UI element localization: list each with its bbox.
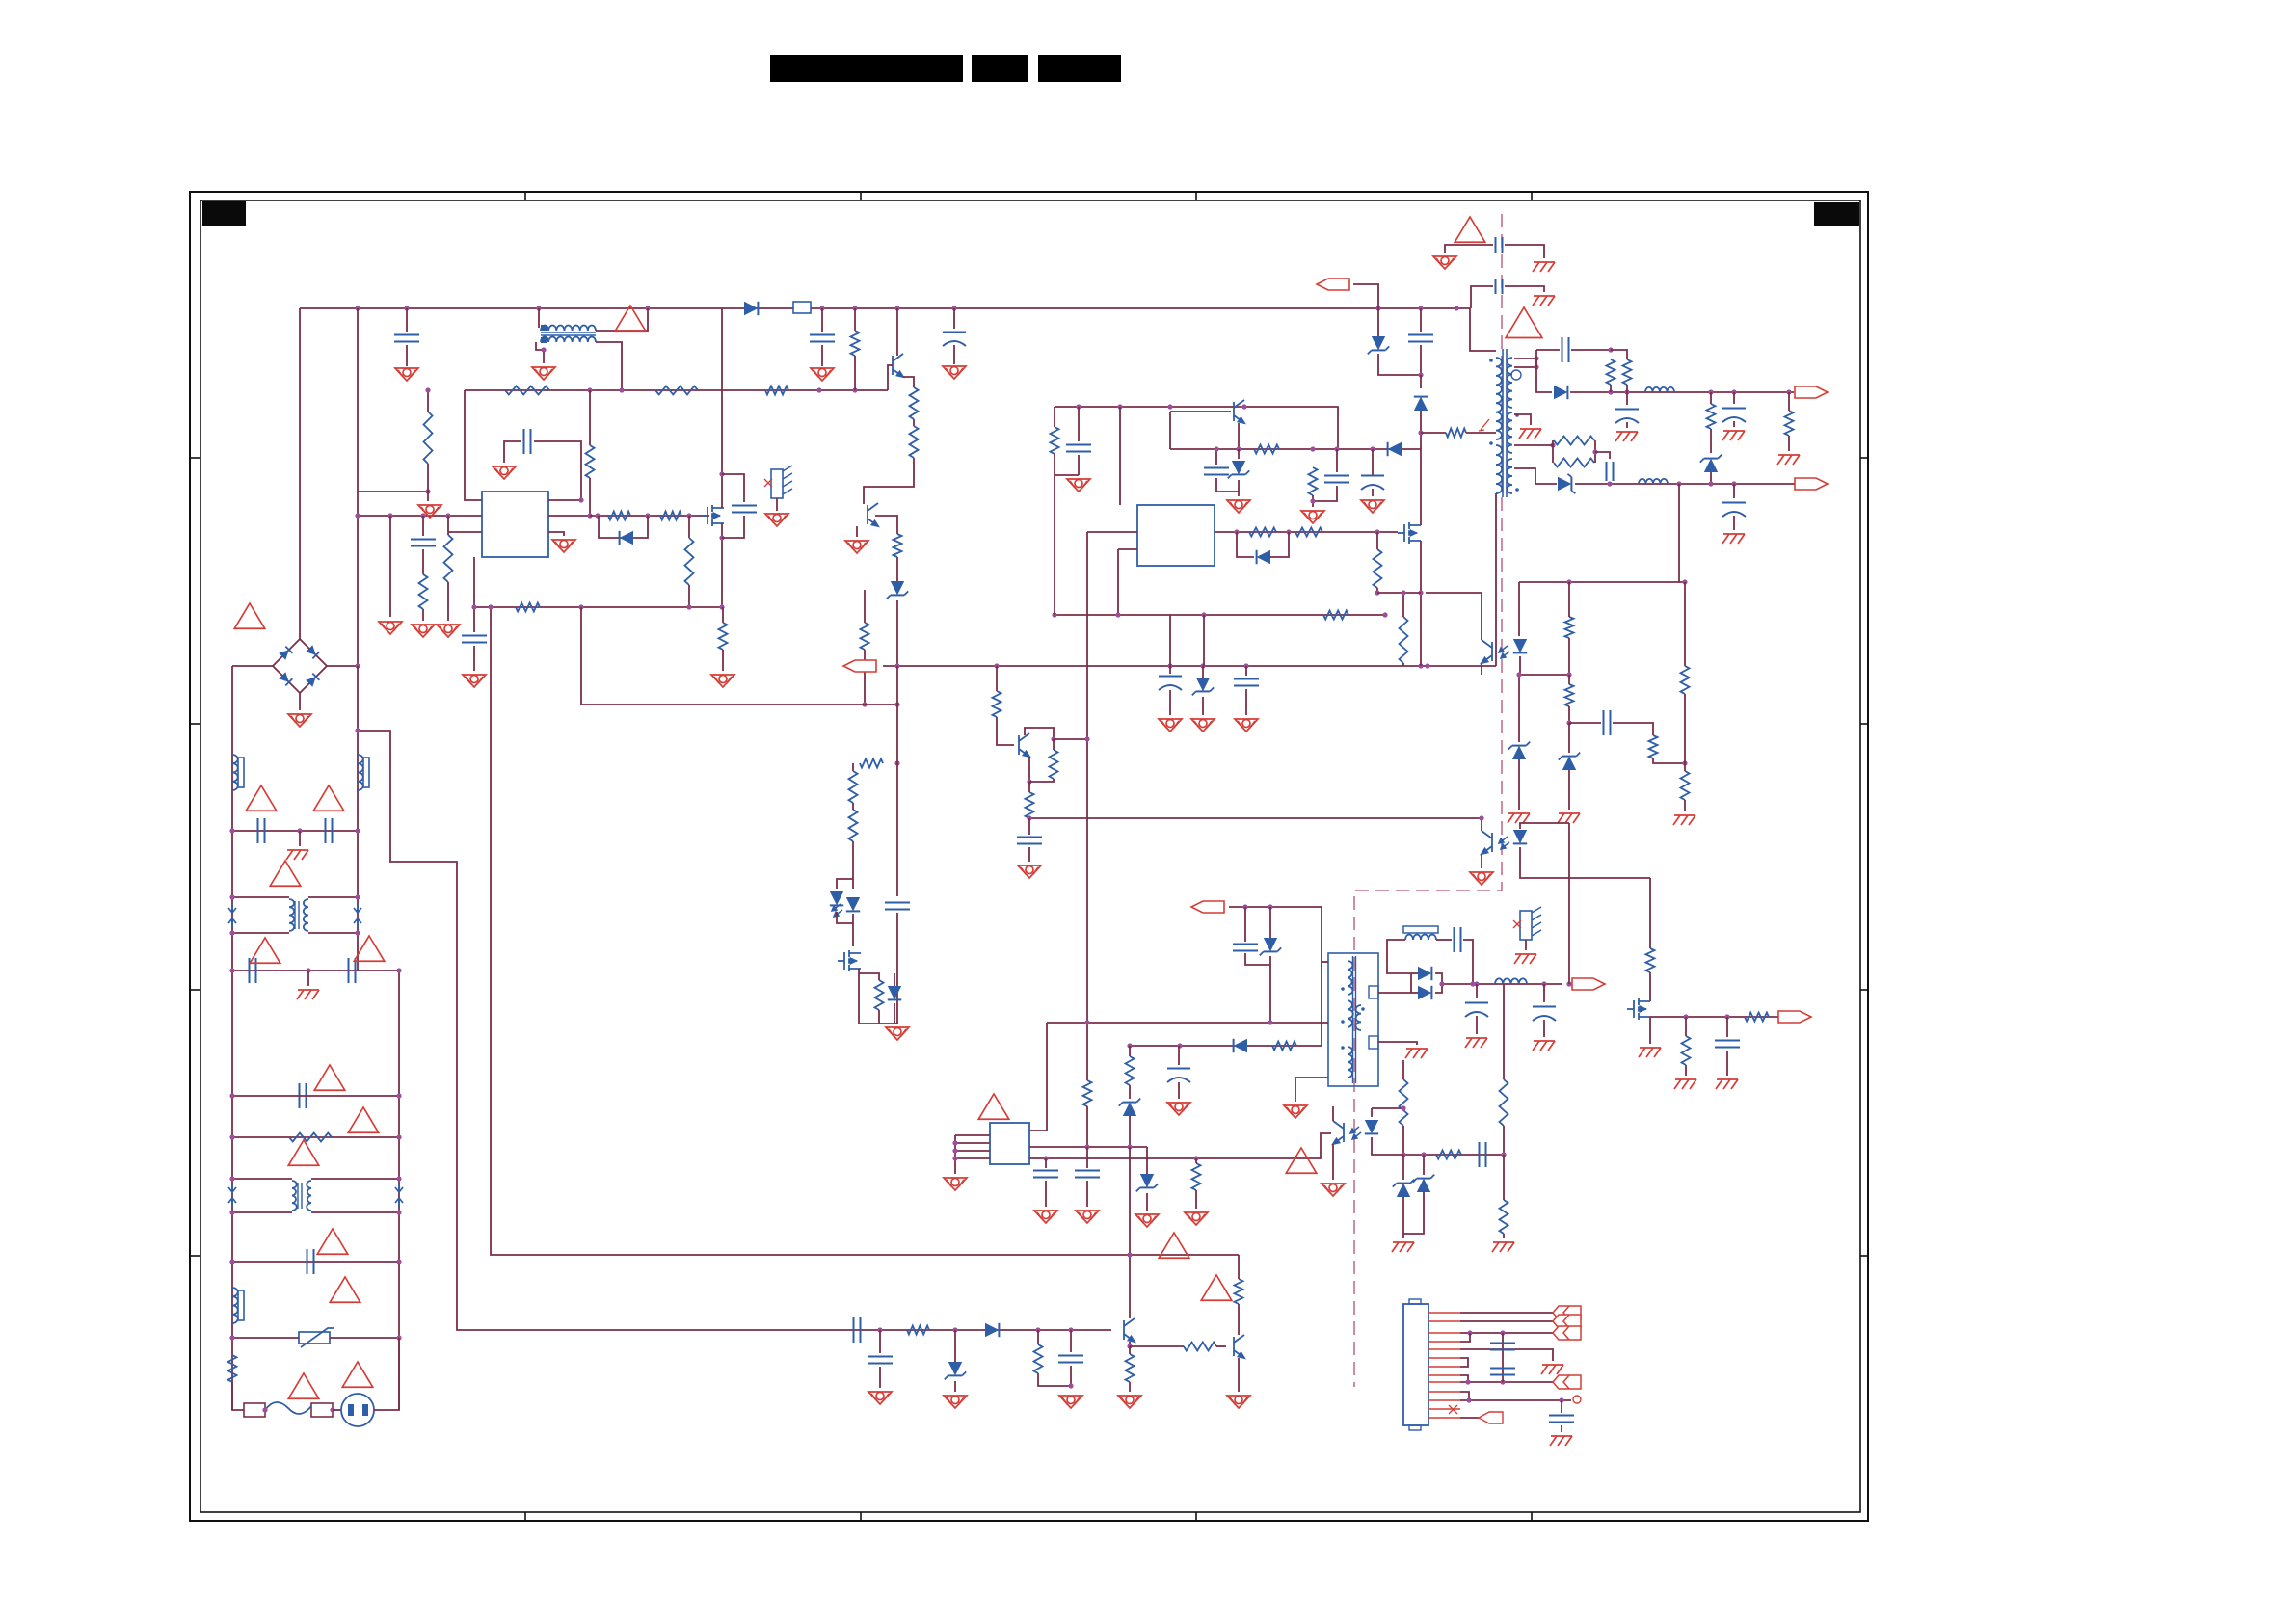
wire pcap4 stub bbox=[1476, 984, 1478, 998]
wire c38 bot bbox=[1178, 1082, 1180, 1099]
wire R24 down bbox=[852, 841, 854, 889]
connector J8 bbox=[1191, 901, 1224, 913]
wire net B routing bbox=[491, 607, 1239, 1255]
wire bridge bottom gnd bbox=[299, 693, 301, 710]
ground R18 bbox=[711, 675, 734, 687]
wire row 1180 bbox=[232, 1136, 399, 1138]
wire Q2 base bbox=[1170, 411, 1231, 412]
surge arrester SG3 bbox=[228, 1184, 236, 1207]
wire zd7 drop bbox=[1269, 907, 1271, 938]
resistor R56 bbox=[993, 691, 1001, 717]
junction bbox=[1127, 1252, 1132, 1257]
wire opto1 tr e bbox=[1481, 663, 1482, 675]
wire pcap2 gnd bbox=[1733, 421, 1735, 427]
surge arrester SG4 bbox=[395, 1184, 403, 1207]
transformer T2 pin tab 2 bbox=[1369, 1036, 1378, 1049]
resistor R17 bbox=[516, 603, 540, 612]
wire q3 emitter bbox=[1129, 1342, 1131, 1346]
wire opto1 tr c bbox=[1426, 593, 1482, 640]
wire choke row bot2 bbox=[308, 932, 358, 934]
resistor R21 bbox=[228, 1355, 237, 1382]
junction bbox=[1559, 1397, 1563, 1402]
chassis ground R64 bbox=[1674, 1079, 1696, 1089]
junction bbox=[1418, 306, 1423, 310]
warning triangle W5 bbox=[313, 785, 344, 811]
transformer T2 box bbox=[1328, 953, 1378, 1086]
zener diode ZD12 bbox=[1196, 678, 1210, 691]
junction bbox=[1516, 672, 1521, 677]
resistor R43 bbox=[1681, 771, 1690, 800]
border tick right 1 bbox=[1860, 457, 1868, 459]
wire CN1 pin13 net bbox=[1460, 1417, 1479, 1419]
wire c28 bot bbox=[1070, 1366, 1072, 1386]
output connector CN1 bbox=[1403, 1299, 1428, 1430]
zener diode ZD10 bar bbox=[1413, 1175, 1434, 1183]
wire fb to standby bbox=[1569, 877, 1650, 879]
wire sec pin1 bbox=[1514, 358, 1536, 359]
transformer T1 pin mark bbox=[1479, 419, 1489, 431]
wire r43 bot bbox=[1684, 800, 1686, 811]
ground C32 bbox=[463, 675, 486, 687]
wire zd11 top bbox=[954, 1330, 956, 1362]
resistor R29 bbox=[1249, 528, 1276, 537]
wire zd3 top bbox=[1377, 308, 1379, 336]
wire gate row bbox=[590, 515, 709, 517]
junction bbox=[1201, 612, 1206, 617]
ground Q6 bbox=[845, 541, 868, 553]
polarized capacitor C12 bbox=[1361, 476, 1384, 491]
wire M3 down bbox=[859, 969, 897, 1024]
wire CN1 pin 2 stub bbox=[1428, 1320, 1460, 1322]
capacitor C20 bbox=[1233, 945, 1258, 951]
wire d8 out bbox=[1570, 391, 1794, 393]
wire rpair right bbox=[1594, 440, 1596, 463]
junction bbox=[894, 306, 899, 310]
chassis ground X-cap bbox=[297, 990, 319, 999]
zener diode ZD4 bbox=[1704, 459, 1718, 472]
wire ZD12 stub bbox=[1202, 666, 1204, 678]
zener diode ZD9 bbox=[1397, 1184, 1410, 1197]
wire CN1 pin 5 stub bbox=[1428, 1348, 1460, 1350]
resistor R25 bbox=[875, 980, 884, 1010]
wire U3 bottom row bbox=[1055, 614, 1385, 616]
junction bbox=[1683, 1014, 1688, 1019]
junction bbox=[595, 513, 600, 518]
inductor L8 bbox=[1495, 978, 1527, 984]
wire Y-cap row bbox=[232, 830, 358, 832]
wire R31 drop bbox=[1376, 532, 1378, 549]
wire U1 bottom pin bbox=[474, 557, 723, 607]
resistor R8 bbox=[851, 331, 860, 356]
zener diode D9 bbox=[1558, 477, 1571, 491]
junction bbox=[1035, 1327, 1040, 1332]
wire C3 gnd bbox=[821, 345, 823, 366]
junction bbox=[355, 306, 360, 310]
wire Q5 collector bbox=[1025, 728, 1054, 739]
wire d11 bot bbox=[1129, 1116, 1131, 1147]
PWM controller U1 bbox=[482, 492, 548, 557]
wire c38 top bbox=[1178, 1046, 1180, 1065]
ground U6 bbox=[1322, 1184, 1345, 1196]
wire pcap3 stub bbox=[1733, 484, 1735, 498]
ground U5 bbox=[944, 1178, 967, 1190]
wire R9-R10 bbox=[913, 419, 915, 426]
resistor R9 bbox=[910, 387, 919, 419]
junction bbox=[1375, 306, 1380, 310]
resistor R40 bbox=[1565, 617, 1574, 638]
wire row 466 bbox=[1170, 448, 1421, 450]
chassis ground ZD5 bbox=[1558, 813, 1580, 823]
junction bbox=[1051, 736, 1055, 741]
fuse F1 bbox=[244, 1402, 333, 1417]
warning triangle W2 bbox=[615, 306, 646, 331]
resistor R45 bbox=[1272, 1042, 1296, 1051]
junction bbox=[1731, 389, 1736, 394]
wire aux row B bbox=[1130, 1045, 1322, 1047]
junction bbox=[306, 968, 310, 972]
chassis ground Y-caps bbox=[286, 850, 308, 860]
capacitor C31 bbox=[1549, 1416, 1574, 1423]
wire r48 top bbox=[1503, 984, 1505, 1079]
junction bbox=[1127, 1144, 1132, 1149]
resistor R65 bbox=[1083, 1080, 1092, 1106]
wire d13 in bbox=[1411, 992, 1418, 994]
wire U3 out bbox=[1215, 531, 1398, 533]
wire c12 bot bbox=[1372, 489, 1374, 496]
wire R19 down bbox=[896, 557, 898, 581]
wire R8 top bbox=[854, 308, 856, 331]
transformer T1 secondary 1 bbox=[1508, 358, 1512, 408]
wire CN1 pin 6 stub bbox=[1428, 1357, 1460, 1359]
capacitor C27 bbox=[868, 1357, 893, 1364]
wire mains row bbox=[232, 1382, 244, 1410]
wire c37 gnd bbox=[1726, 1051, 1728, 1076]
resistor R27 bbox=[1254, 445, 1279, 454]
junction bbox=[355, 513, 360, 518]
junction bbox=[1200, 663, 1205, 668]
wire c10 top bbox=[1215, 449, 1217, 465]
optocoupler U2 LED arrows bbox=[832, 904, 842, 917]
optocoupler U6 LED side arrows bbox=[1350, 1127, 1361, 1139]
X-capacitor CX2 bbox=[349, 958, 356, 983]
border tick top 3 bbox=[1195, 192, 1197, 200]
wire C5 stub bbox=[422, 516, 424, 536]
transformer T2 polarity dots bbox=[1341, 987, 1365, 1050]
transistor Q2 bbox=[1234, 400, 1244, 423]
junction bbox=[1708, 389, 1713, 394]
resistor R49 bbox=[1436, 1151, 1461, 1159]
connector arrow K2 bbox=[1553, 1315, 1581, 1328]
wire sense column top bbox=[864, 590, 866, 623]
junction bbox=[1286, 529, 1291, 534]
warning triangle W10 bbox=[348, 1107, 379, 1132]
mains plug P1 bbox=[341, 1394, 374, 1426]
resistor R22 bbox=[860, 759, 883, 768]
wire c23 gnd bbox=[1543, 1020, 1545, 1037]
resistor R60 bbox=[1446, 429, 1466, 438]
border tick left 3 bbox=[190, 989, 200, 991]
wire U5 cs row bbox=[1029, 1133, 1331, 1158]
optocoupler U4 LED side arrows bbox=[1499, 837, 1509, 849]
capacitor C36 bbox=[1033, 1171, 1058, 1178]
capacitor C13 bbox=[1408, 335, 1433, 342]
zener diode D9 bar bbox=[1567, 474, 1575, 493]
optocoupler U2 LED bbox=[846, 897, 860, 911]
junction bbox=[1608, 389, 1613, 394]
wire r35 bot bbox=[1626, 385, 1628, 392]
warning triangle W21 bbox=[1159, 1233, 1189, 1258]
junction bbox=[1310, 498, 1315, 503]
Y-capacitor CY3 bbox=[1496, 237, 1503, 253]
capacitor C35 bbox=[1017, 838, 1042, 844]
capacitor C21 bbox=[1075, 1171, 1100, 1178]
wire CN1 pin3 net bbox=[1460, 1332, 1553, 1334]
transistor Q1 bbox=[893, 354, 903, 377]
wire led down bbox=[852, 914, 854, 946]
resistor R63 bbox=[1745, 1013, 1769, 1022]
wire c27 gnd bbox=[879, 1367, 881, 1388]
resistor R37 bbox=[1785, 411, 1794, 436]
wire cy3 right bbox=[1505, 245, 1544, 258]
wire R11 top bbox=[427, 390, 429, 412]
wire U1 pin3 bbox=[448, 531, 482, 533]
ground C27 bbox=[868, 1392, 892, 1404]
resistor R48 bbox=[1500, 1079, 1508, 1126]
optocoupler U4 LED side bbox=[1513, 830, 1527, 843]
wire sec pin2 bbox=[1514, 366, 1536, 368]
wire shunt chain bbox=[852, 763, 854, 771]
junction bbox=[1076, 404, 1081, 409]
junction bbox=[1465, 1379, 1470, 1384]
wire rect right rail bbox=[1435, 973, 1442, 993]
junction bbox=[1243, 663, 1248, 668]
bridge rectifier BR1 bbox=[273, 639, 327, 693]
wire sb input row bbox=[1229, 906, 1322, 908]
junction bbox=[1167, 404, 1172, 409]
wire r60 left bbox=[1421, 432, 1446, 434]
wire gate diode loop bbox=[599, 516, 648, 538]
junction bbox=[229, 1093, 234, 1098]
wire opto2 tr top bbox=[1481, 818, 1482, 831]
wire r52 top bbox=[1037, 1330, 1039, 1344]
junction bbox=[1117, 404, 1122, 409]
wire r52 bot bbox=[1038, 1373, 1071, 1386]
wire Q1 emitter bbox=[903, 377, 914, 387]
CM choke L3 winding A bbox=[289, 899, 294, 931]
ground R11 bbox=[418, 505, 441, 518]
wire L9 left bbox=[1387, 940, 1411, 973]
wire choke2 row top bbox=[232, 1178, 292, 1180]
resistor R42 bbox=[1649, 735, 1658, 758]
resistor R6 bbox=[765, 386, 788, 395]
resistor R59 bbox=[1126, 1056, 1135, 1085]
wire r34 bot bbox=[1610, 385, 1612, 392]
wire zd8 gnd bbox=[1146, 1193, 1148, 1211]
junction bbox=[404, 306, 409, 310]
wire opto2 row bbox=[1519, 822, 1569, 824]
wire R57 bottom bbox=[1029, 779, 1054, 782]
resistor R64 bbox=[1682, 1036, 1691, 1065]
junction bbox=[1467, 1330, 1472, 1335]
junction bbox=[1375, 529, 1379, 534]
chassis ground C16 bbox=[1722, 431, 1745, 440]
junction bbox=[1127, 1043, 1132, 1048]
X-capacitor CX1 bbox=[250, 958, 256, 983]
wire sec loop up bbox=[1535, 350, 1537, 367]
junction bbox=[229, 1210, 234, 1214]
junction bbox=[1068, 1383, 1073, 1388]
wire R58 top bbox=[1028, 782, 1030, 792]
resistor R5 bbox=[655, 386, 698, 395]
wire U1 gnd pin bbox=[548, 532, 564, 536]
sheet border inner bbox=[200, 200, 1860, 1512]
junction bbox=[587, 513, 592, 518]
wire c21 gnd bbox=[1086, 1181, 1088, 1207]
wire choke T2 feed bbox=[538, 308, 540, 328]
wire rect left rail bbox=[1410, 973, 1412, 993]
resistor R30 bbox=[1295, 528, 1322, 537]
chassis ground CY4 bbox=[1533, 296, 1555, 306]
bridge diode BR1a bbox=[279, 647, 292, 660]
resistor R62 bbox=[1681, 666, 1690, 694]
wire R12 gnd bbox=[422, 609, 424, 621]
ground shunt bbox=[886, 1027, 909, 1040]
wire net A upper bbox=[389, 516, 391, 617]
wire C9 bot bbox=[1078, 455, 1080, 475]
junction bbox=[1682, 579, 1687, 584]
chassis ground CY3 bbox=[1533, 262, 1555, 272]
bridge diode BR1d bbox=[306, 674, 319, 687]
zener diode ZD1 bbox=[891, 581, 904, 595]
wire r36 zd bbox=[1710, 429, 1712, 453]
junction bbox=[1268, 1020, 1272, 1024]
wire r25 bot bbox=[878, 1010, 880, 1024]
wire opto2 fb col bbox=[1568, 878, 1570, 984]
wire r32 top bbox=[1402, 593, 1404, 617]
ground U1 bbox=[552, 540, 575, 552]
wire startup drop bbox=[589, 390, 591, 445]
wire r53 gnd bbox=[1129, 1382, 1131, 1392]
warning triangle W4 bbox=[246, 785, 277, 811]
wire CN1 pin 4 stub bbox=[1428, 1341, 1460, 1343]
wire sec cap row2 bbox=[1571, 349, 1611, 351]
transformer T2 core bbox=[1353, 956, 1356, 1083]
wire c24 right bbox=[1463, 940, 1473, 984]
wire choke row top bbox=[232, 896, 289, 898]
junction bbox=[1115, 612, 1120, 617]
wire R23-R24 bbox=[852, 803, 854, 810]
junction bbox=[1474, 981, 1479, 986]
junction bbox=[994, 663, 999, 668]
resistor R36 bbox=[1707, 404, 1716, 429]
wire c10 bot bbox=[1216, 478, 1239, 492]
wire C31 gnd bbox=[1561, 1425, 1562, 1432]
transformer T2 pin tab 1 bbox=[1369, 986, 1378, 998]
junction bbox=[229, 1335, 234, 1340]
ground C12 bbox=[1361, 500, 1384, 513]
wire CN1 pin 13 stub bbox=[1428, 1417, 1460, 1419]
wire sec diode row2 bbox=[1535, 483, 1557, 485]
wire X-cap row bbox=[232, 970, 399, 971]
zener diode ZD6 bar bbox=[1508, 742, 1530, 750]
wire c27 stub bbox=[879, 1330, 881, 1353]
wire aux winding bottom bbox=[1495, 493, 1497, 666]
warning triangle W16 bbox=[1455, 217, 1485, 242]
polarized capacitor C23 bbox=[1533, 1007, 1556, 1022]
junction bbox=[471, 604, 476, 609]
wire opto3 tr e bbox=[1332, 1144, 1334, 1180]
transformer T2 primary winding 1 bbox=[1348, 961, 1352, 995]
junction bbox=[445, 513, 450, 518]
resistor R12 bbox=[419, 574, 428, 609]
junction bbox=[1550, 442, 1555, 447]
transformer T1 polarity marks bbox=[1489, 359, 1521, 492]
junction bbox=[645, 513, 650, 518]
title bar redacted 2 bbox=[972, 55, 1028, 82]
wire R18 bottom bbox=[722, 650, 724, 671]
junction bbox=[1401, 1105, 1405, 1110]
wire startup R11 row bbox=[358, 491, 428, 492]
wire zd2 bot bbox=[1238, 480, 1240, 496]
wire C9 top bbox=[1078, 407, 1080, 441]
wire r47 top bbox=[1402, 1060, 1404, 1079]
wire M1 drain bbox=[721, 308, 723, 508]
junction bbox=[1786, 389, 1791, 394]
ground C33 bbox=[1159, 719, 1182, 732]
resistor R4 bbox=[505, 386, 549, 395]
wire r54 out bbox=[1216, 1345, 1226, 1347]
wire C4 gnd bbox=[953, 345, 955, 364]
junction bbox=[355, 930, 360, 935]
border tick top 2 bbox=[860, 192, 862, 200]
resistor R10 bbox=[910, 426, 919, 458]
wire cap branch bbox=[896, 763, 898, 896]
junction bbox=[877, 1327, 882, 1332]
junction bbox=[396, 1335, 401, 1340]
connector J3 bbox=[1317, 279, 1349, 290]
chassis ground R50 bbox=[1492, 1242, 1514, 1252]
wire RT2 gnd bbox=[1525, 940, 1527, 950]
wire opto2 tr bot bbox=[1481, 854, 1482, 868]
polarized capacitor C18 bbox=[1722, 503, 1746, 518]
junction bbox=[1052, 612, 1056, 617]
junction bbox=[229, 828, 234, 833]
ground R52 bbox=[1059, 1396, 1082, 1408]
wire c20 drop bbox=[1244, 907, 1246, 942]
wire aux bus 691 bbox=[883, 665, 1496, 667]
junction bbox=[578, 604, 583, 609]
chassis ground C37 bbox=[1716, 1079, 1738, 1089]
wire T2 pin1 stub bbox=[1322, 961, 1328, 963]
junction bbox=[1418, 372, 1423, 377]
junction bbox=[355, 828, 360, 833]
resistor R16 bbox=[685, 538, 694, 585]
diode D3 bbox=[830, 891, 843, 905]
warning triangle W19 bbox=[978, 1094, 1009, 1119]
wire r46 gnd bbox=[1195, 1190, 1197, 1209]
wire right fb col2 bbox=[1684, 694, 1686, 771]
resistor R13 bbox=[444, 535, 453, 582]
junction bbox=[719, 604, 724, 609]
wire C35 gnd bbox=[1028, 847, 1030, 862]
ground ZD12 bbox=[1191, 719, 1215, 732]
wire CN1 pin10 net bbox=[1460, 1392, 1469, 1400]
polarized capacitor C15 bbox=[1615, 410, 1639, 424]
wire zd9 bot bbox=[1402, 1197, 1404, 1238]
chassis ground RT2 bbox=[1514, 954, 1536, 964]
optocoupler U2 LED side arrows bbox=[1499, 646, 1509, 658]
thermistor RT2 bbox=[1520, 907, 1541, 940]
